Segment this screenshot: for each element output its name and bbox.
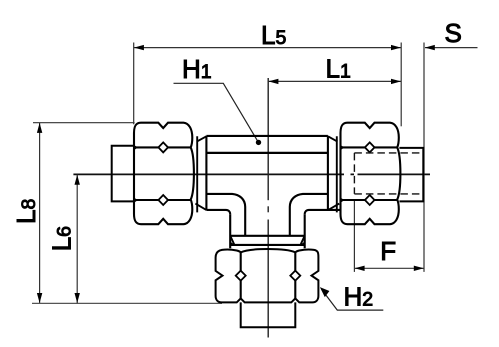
sleeve left (between nut and body) [195, 136, 206, 212]
svg-text:H1: H1 [182, 54, 212, 84]
wire: extension line left of L5 [133, 43, 135, 125]
centerline horizontal axis [73, 173, 430, 175]
body of tee fitting [206, 136, 340, 236]
svg-text:F: F [380, 236, 396, 266]
centerline vertical branch axis (upper solid extension) [267, 78, 269, 200]
svg-text:L1: L1 [326, 54, 351, 84]
branch boss walls [230, 214, 305, 248]
svg-text:S: S [445, 18, 462, 48]
svg-text:H2: H2 [344, 281, 374, 311]
wire: extension line F left [353, 201, 355, 272]
wire: leader line H1 with dot [174, 83, 258, 141]
wire: extension line right of L5/L1 [400, 43, 402, 127]
centerline vertical branch axis (lower) [267, 220, 269, 338]
wire: leader line H2 with arrow [322, 289, 384, 310]
nut H1 (left compression nut) [134, 123, 194, 225]
collar above bottom nut [230, 236, 305, 246]
wire: dimension line L5 [134, 47, 402, 49]
wire: dimension line L6 [76, 175, 78, 304]
centerline vertical branch axis (chain mid) [267, 206, 269, 212]
tube stub left [112, 146, 134, 202]
svg-text:L8: L8 [11, 199, 41, 224]
svg-text:L6: L6 [46, 226, 76, 251]
svg-text:L5: L5 [261, 20, 286, 50]
wire: extension line L8 top [33, 122, 135, 124]
wire: extension line bottom (L8/L6) [32, 302, 222, 304]
sleeve right (between body and right nut) [328, 136, 339, 212]
wire: dimension line L8 [39, 123, 41, 304]
wire: dimension line L1 [268, 80, 401, 82]
wire: dimension line F [354, 267, 424, 269]
wire: dimension line S with arrow [425, 47, 478, 49]
nut S (right compression nut) [341, 123, 401, 225]
hidden bore lines (dashed) in right nut [354, 153, 423, 194]
tube stub right [399, 148, 423, 202]
nut H2 (bottom compression nut) [216, 249, 319, 302]
wire: extension line S right [423, 43, 425, 272]
tube stub bottom [241, 302, 296, 327]
